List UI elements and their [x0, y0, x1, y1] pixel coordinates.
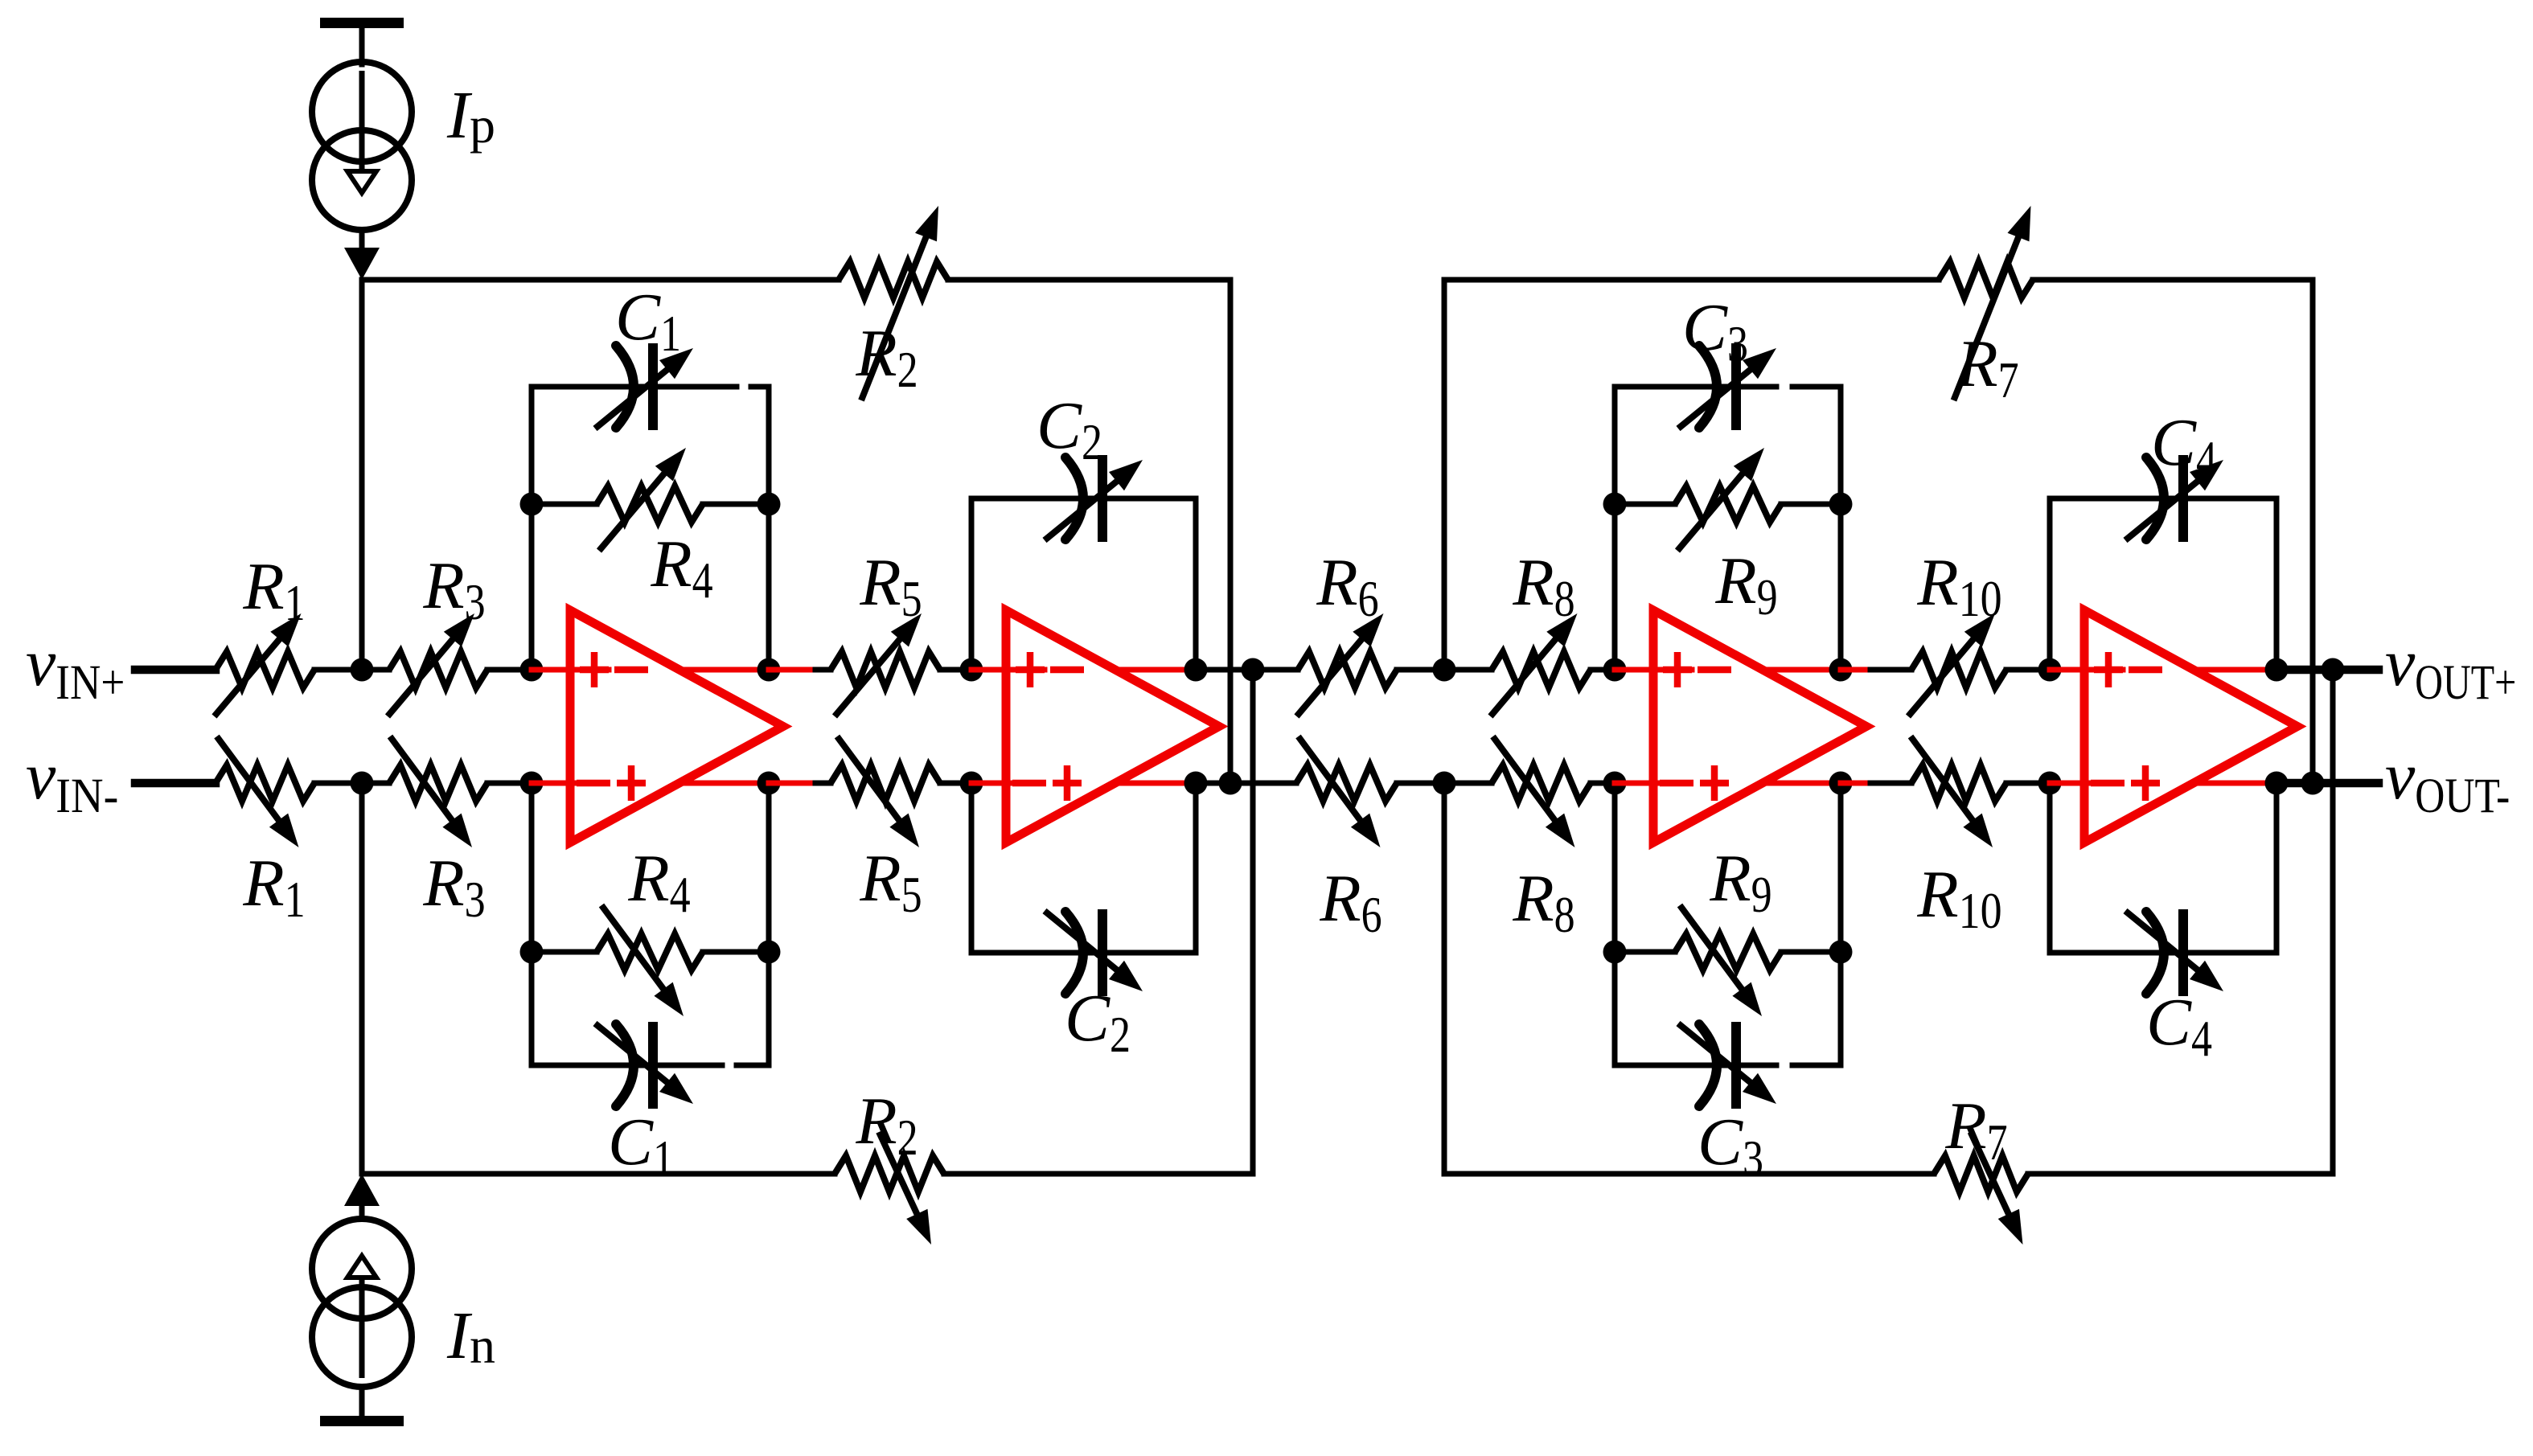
- label C2 bottom: [1065, 981, 1131, 1063]
- wire U1 out to R5 top: [769, 667, 831, 673]
- wire C2 box top-right vertical: [1193, 498, 1199, 670]
- wire C1-R4 box bottom-left vertical: [529, 783, 535, 1065]
- svg-text:R4: R4: [627, 841, 690, 923]
- node U4 - output: [2265, 772, 2289, 795]
- svg-text:R7: R7: [1944, 1089, 2007, 1171]
- wire top-rail-2 drop to - rail: [2310, 280, 2316, 783]
- svg-text:vOUT-: vOUT-: [2385, 739, 2510, 823]
- label R4 bottom: [627, 841, 690, 923]
- wire U4 + output (red): [2194, 667, 2276, 673]
- node R4 top-left: [520, 493, 544, 516]
- wire R6 bottom to node D: [1397, 781, 1444, 786]
- resistor R4 (top): [597, 448, 703, 551]
- wire U2 - output (red): [1115, 781, 1196, 786]
- node bottom-rail feedback on + rail: [1242, 658, 1265, 682]
- node C (R6/R8/top-rail-2): [1433, 658, 1456, 682]
- wire R8 top to U3 node: [1591, 667, 1615, 673]
- wire top rail left segment: [362, 277, 839, 283]
- resistor R9 (top): [1675, 448, 1781, 551]
- label C1 bottom: [608, 1105, 674, 1187]
- wire U3 out to R10 top: [1841, 667, 1911, 673]
- wire R4 bottom-left stub: [532, 949, 597, 955]
- label vIN-: [26, 739, 118, 823]
- wire node A to top rail: [359, 280, 365, 670]
- current source In: [312, 1174, 412, 1426]
- resistor R5 (bottom): [831, 736, 940, 847]
- label R9 bottom: [1709, 841, 1771, 923]
- wire R3 to op-amp U1 + input: [487, 667, 532, 673]
- wire R6 top to node C: [1397, 667, 1444, 673]
- label C4 bottom: [2146, 985, 2212, 1067]
- wire C4 box bottom-left vertical: [2047, 783, 2053, 953]
- wire C3-R9 box top-right vertical: [1838, 387, 1844, 670]
- node R4 top-right: [757, 493, 781, 516]
- wire C4 box top-right vertical: [2274, 498, 2280, 670]
- label R6 top: [1316, 545, 1378, 627]
- svg-text:R4: R4: [650, 527, 712, 609]
- node U3 + output: [1829, 658, 1853, 682]
- wire vOUT- lead: [2276, 779, 2379, 788]
- wire R5 top to U2 node: [940, 667, 971, 673]
- wire node D to R8 bottom: [1444, 781, 1492, 786]
- wire C3 top horizontal: [1615, 384, 1841, 390]
- resistor R7 (top): [1939, 206, 2033, 400]
- label Ip: [446, 78, 495, 154]
- label R2 bottom: [855, 1084, 918, 1166]
- node U2 - input: [960, 772, 983, 795]
- wire C1-R4 box bottom-right vertical: [766, 783, 772, 1065]
- svg-text:C3: C3: [1682, 290, 1748, 372]
- wire C4 top horizontal: [2050, 496, 2276, 502]
- wire vIN- lead: [135, 779, 216, 788]
- node U2 + input: [960, 658, 983, 682]
- resistor R10 (top): [1908, 613, 2006, 716]
- resistor R4 (bottom): [597, 905, 703, 1016]
- svg-text:In: In: [446, 1298, 495, 1374]
- wire R8 bottom to U3 node: [1591, 781, 1615, 786]
- label R5 top: [859, 545, 922, 627]
- wire C4 box bottom-right vertical: [2274, 783, 2280, 953]
- node U3 - input: [1603, 772, 1627, 795]
- wire top rail 2 right segment: [2033, 277, 2313, 283]
- label R10 top: [1916, 545, 2001, 627]
- wire C2 bottom horizontal: [971, 950, 1196, 956]
- label vOUT+: [2385, 625, 2516, 710]
- node top-rail-2 feedback on - rail: [2301, 772, 2325, 795]
- node R9 bottom-right: [1829, 941, 1853, 964]
- capacitor C1 (bottom): [595, 1022, 693, 1109]
- label R1 top: [242, 549, 305, 631]
- capacitor C4 (bottom): [2125, 909, 2223, 996]
- wire vIN+ lead: [135, 666, 216, 675]
- node R9 top-left: [1603, 493, 1627, 516]
- resistor R6 (bottom): [1296, 736, 1397, 847]
- label R3 bottom: [422, 846, 485, 928]
- node U1 - input: [520, 772, 544, 795]
- node R4 bottom-right: [757, 941, 781, 964]
- resistor R6 (top): [1297, 613, 1398, 716]
- wire U4 - output (red): [2194, 781, 2276, 786]
- wire bottom-rail-2 rise to + rail: [2330, 670, 2336, 1174]
- wire bottom-rail rise to + rail: [1250, 670, 1256, 1174]
- node U4 - input: [2038, 772, 2062, 795]
- wire U2 + output (red): [1115, 667, 1196, 673]
- wire U3 - input stub (red): [1615, 781, 1660, 786]
- wire U1 - input stub (red): [532, 781, 577, 786]
- wire U1 + output (red): [679, 667, 769, 673]
- node B (R1/R3/bottom-rail junction): [351, 772, 374, 795]
- svg-text:R6: R6: [1319, 861, 1381, 943]
- resistor R3 (top): [388, 613, 487, 716]
- svg-text:R2: R2: [855, 1084, 918, 1166]
- label R8 top: [1512, 545, 1574, 627]
- resistor R2 (top): [839, 206, 948, 400]
- svg-text:Ip: Ip: [446, 78, 495, 154]
- label C4 top: [2151, 405, 2217, 487]
- resistor R1 (top): [215, 613, 315, 716]
- node bottom-rail-2 feedback on + rail: [2322, 658, 2345, 682]
- label C3 top: [1682, 290, 1748, 372]
- node U3 - output: [1829, 772, 1853, 795]
- wire top rail right segment: [948, 277, 1230, 283]
- wire R4 top-right stub: [703, 502, 769, 507]
- wire U3 + output (red): [1763, 667, 1841, 673]
- node U2 - output: [1184, 772, 1208, 795]
- label vIN+: [26, 625, 125, 710]
- wire R9 bottom-left stub: [1615, 949, 1675, 955]
- wire R9 top-left stub: [1615, 502, 1675, 507]
- svg-text:vIN+: vIN+: [26, 625, 125, 710]
- node U4 + input: [2038, 658, 2062, 682]
- wire C2 box top-left vertical: [969, 498, 975, 670]
- wire R9 bottom-right stub: [1781, 949, 1841, 955]
- wire U4 + input stub (red): [2050, 667, 2123, 673]
- wire C4 bottom horizontal: [2050, 950, 2276, 956]
- wire C3 bottom horizontal: [1615, 1063, 1841, 1068]
- node top-rail feedback on - rail: [1219, 772, 1242, 795]
- op-amp U1: [570, 610, 783, 843]
- capacitor C3 (top): [1678, 343, 1776, 430]
- svg-text:C2: C2: [1037, 388, 1102, 470]
- wire U2 + out to R6: [1196, 667, 1298, 673]
- wire bottom rail 2 left segment: [1444, 1171, 1934, 1177]
- svg-text:R10: R10: [1916, 545, 2001, 627]
- node U3 + input: [1603, 658, 1627, 682]
- wire R1-R3 bottom: [314, 781, 389, 786]
- svg-text:vIN-: vIN-: [26, 739, 118, 823]
- node U1 + output: [757, 658, 781, 682]
- svg-text:R5: R5: [859, 841, 922, 923]
- node U4 + output: [2265, 658, 2289, 682]
- wire node C to top rail 2: [1442, 280, 1447, 670]
- svg-text:R9: R9: [1709, 841, 1771, 923]
- wire vOUT+ lead: [2276, 666, 2379, 675]
- wire U2 + input stub (red): [971, 667, 1045, 673]
- wire U3 out to R10 bottom: [1841, 781, 1911, 786]
- node R9 top-right: [1829, 493, 1853, 516]
- node U1 + input: [520, 658, 544, 682]
- resistor R8 (top): [1491, 613, 1591, 716]
- wire C3-R9 box bottom-left vertical: [1612, 783, 1618, 1065]
- wire U2 - input stub (red): [971, 781, 1012, 786]
- resistor R2 (bottom): [835, 1132, 944, 1245]
- capacitor C4 (top): [2125, 455, 2223, 542]
- wire C1-R4 box top-left vertical: [529, 387, 535, 670]
- wire R5 bottom to U2 node: [940, 781, 971, 786]
- wire node D to bottom rail 2: [1442, 783, 1447, 1174]
- label C1 top: [615, 280, 681, 362]
- svg-text:R3: R3: [422, 548, 485, 630]
- node R9 bottom-left: [1603, 941, 1627, 964]
- svg-text:C1: C1: [615, 280, 681, 362]
- current source Ip: [312, 18, 412, 280]
- wire C3-R9 box top-left vertical: [1612, 387, 1618, 670]
- svg-text:R10: R10: [1916, 857, 2001, 939]
- label R7 top: [1956, 326, 2018, 408]
- label R3 top: [422, 548, 485, 630]
- svg-text:R6: R6: [1316, 545, 1378, 627]
- svg-text:R1: R1: [242, 846, 305, 928]
- capacitor C3 (bottom): [1678, 1022, 1776, 1109]
- svg-text:R8: R8: [1512, 545, 1574, 627]
- wire C2 top horizontal: [971, 496, 1196, 502]
- svg-text:R3: R3: [422, 846, 485, 928]
- node D (R6/R8/bottom-rail-2): [1433, 772, 1456, 795]
- wire C2 box bottom-left vertical: [969, 783, 975, 953]
- resistor R7 (bottom): [1934, 1132, 2028, 1245]
- svg-text:R2: R2: [855, 316, 918, 398]
- wire R9 top-right stub: [1781, 502, 1841, 507]
- wire bottom rail 2 right segment: [2028, 1171, 2333, 1177]
- svg-text:C2: C2: [1065, 981, 1131, 1063]
- wire U3 - output (red): [1763, 781, 1841, 786]
- svg-text:R9: R9: [1714, 543, 1777, 625]
- wire top-rail drop to - rail: [1228, 280, 1234, 783]
- label R5 bottom: [859, 841, 922, 923]
- label R9 top: [1714, 543, 1777, 625]
- wire C3-R9 box bottom-right vertical: [1838, 783, 1844, 1065]
- label R6 bottom: [1319, 861, 1381, 943]
- svg-text:R1: R1: [242, 549, 305, 631]
- node R4 bottom-left: [520, 941, 544, 964]
- wire C1-R4 box top-right vertical: [766, 387, 772, 670]
- wire R3 to op-amp U1 - input: [487, 781, 532, 786]
- capacitor C1 (top): [595, 343, 693, 430]
- label R4 top: [650, 527, 712, 609]
- resistor R5 (top): [831, 613, 940, 716]
- label In: [446, 1298, 495, 1374]
- resistor R1 (bottom): [216, 736, 314, 847]
- wire R10 bottom to U4 node: [2006, 781, 2050, 786]
- label R7 bottom: [1944, 1089, 2007, 1171]
- wire R1-R3 top: [314, 667, 389, 673]
- wire U3 + input stub (red): [1615, 667, 1692, 673]
- wire C1 top horizontal: [532, 384, 769, 390]
- wire bottom rail right segment: [944, 1171, 1253, 1177]
- op-amp U3: [1653, 610, 1866, 843]
- node U1 - output: [757, 772, 781, 795]
- label vOUT-: [2385, 739, 2510, 823]
- capacitor C2 (bottom): [1045, 909, 1143, 996]
- label R10 bottom: [1916, 857, 2001, 939]
- wire top rail 2 left segment: [1444, 277, 1939, 283]
- svg-text:C4: C4: [2151, 405, 2217, 487]
- wire U1 - output (red): [679, 781, 769, 786]
- resistor R8 (bottom): [1492, 736, 1591, 847]
- label C3 bottom: [1698, 1105, 1763, 1187]
- svg-text:R5: R5: [859, 545, 922, 627]
- wire R4 bottom-right stub: [703, 949, 769, 955]
- capacitor C2 (top): [1045, 455, 1143, 542]
- op-amp U4: [2084, 610, 2297, 843]
- resistor R9 (bottom): [1675, 905, 1781, 1016]
- wire U1 out to R5 bottom: [769, 781, 831, 786]
- wire U2 - out to R6: [1196, 781, 1296, 786]
- wire R4 top-left stub: [532, 502, 597, 507]
- svg-text:vOUT+: vOUT+: [2385, 625, 2516, 710]
- node U2 + output: [1184, 658, 1208, 682]
- label R2 top: [855, 316, 918, 398]
- wire U1 + input stub (red): [532, 667, 609, 673]
- wire U4 - input stub (red): [2050, 781, 2091, 786]
- node A (R1/R3/top-rail junction): [351, 658, 374, 682]
- label R1 bottom: [242, 846, 305, 928]
- wire C1 bottom horizontal: [532, 1063, 769, 1068]
- svg-text:C4: C4: [2146, 985, 2212, 1067]
- op-amp U2: [1006, 610, 1219, 843]
- label C2 top: [1037, 388, 1102, 470]
- svg-text:R8: R8: [1512, 861, 1574, 943]
- label R8 bottom: [1512, 861, 1574, 943]
- wire R10 top to U4 node: [2006, 667, 2050, 673]
- resistor R10 (bottom): [1911, 736, 2006, 847]
- svg-text:R7: R7: [1956, 326, 2018, 408]
- wire node B to bottom rail: [359, 783, 365, 1174]
- wire C2 box bottom-right vertical: [1193, 783, 1199, 953]
- wire node C to R8 top: [1444, 667, 1492, 673]
- wire bottom rail left segment: [362, 1171, 835, 1177]
- resistor R3 (bottom): [389, 736, 487, 847]
- wire C4 box top-left vertical: [2047, 498, 2053, 670]
